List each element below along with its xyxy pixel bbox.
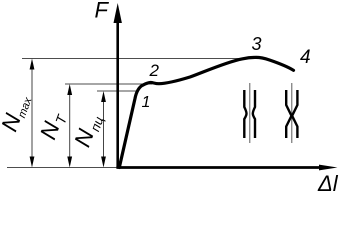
svg-text:3: 3 — [252, 34, 262, 54]
svg-text:4: 4 — [300, 47, 311, 68]
svg-text:Nпц: Nпц — [69, 110, 107, 151]
svg-text:Nmax: Nmax — [0, 90, 35, 135]
svg-text:1: 1 — [142, 94, 151, 111]
svg-text:NT: NT — [35, 107, 71, 143]
svg-text:2: 2 — [149, 61, 160, 80]
svg-text:F: F — [95, 0, 110, 23]
svg-text:Δl: Δl — [317, 171, 339, 196]
